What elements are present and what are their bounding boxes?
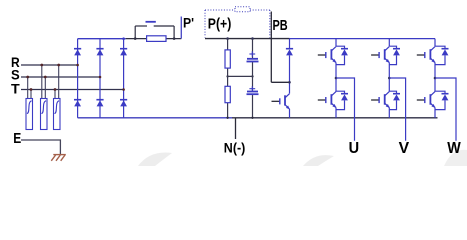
- bridge leg 3 vertical: [123, 39, 125, 118]
- varistor V3: [54, 99, 61, 130]
- wire PB to brake leg: [271, 81, 289, 83]
- node dot midpoint-C: [251, 75, 253, 77]
- watermark blob bottom-right corner: [444, 150, 467, 166]
- wire bypass loop right vertical: [173, 26, 175, 39]
- wire phase T horizontal: [21, 89, 124, 91]
- svg-text:E: E: [13, 131, 21, 147]
- bottom DC bus (dark segment): [232, 117, 438, 119]
- diode D1 (upper leg1): [74, 49, 81, 56]
- node dot S-V1: [26, 76, 29, 79]
- terminal PB vertical: [270, 12, 272, 83]
- node dot T-leg3: [122, 88, 125, 91]
- watermark blob bottom-left-center: [138, 153, 172, 166]
- transistor Q7 (brake IGBT): [272, 94, 290, 118]
- wire output tap W: [435, 78, 456, 141]
- diode D6 (lower leg3): [120, 100, 127, 107]
- node dot S-leg2: [99, 76, 102, 79]
- node dot midpoint-R: [226, 75, 228, 77]
- wire varistor V1 left lead (from S): [27, 77, 29, 99]
- relay contact K1 bar: [146, 21, 156, 23]
- wire output tap V: [389, 78, 405, 141]
- capacitor C2: [247, 86, 259, 94]
- watermark blob bottom-center-right: [303, 155, 334, 166]
- capacitor C1: [247, 51, 259, 61]
- node dot bus-R chain: [226, 37, 229, 40]
- bridge leg 1 vertical: [77, 39, 79, 118]
- varistor V1: [26, 99, 33, 130]
- wire bypass top branch left: [135, 25, 147, 27]
- svg-text:PB: PB: [273, 17, 288, 34]
- ground E symbol: [51, 155, 66, 161]
- wire output tap U: [336, 78, 355, 141]
- wire varistor V2 left lead (from R): [41, 65, 43, 99]
- varistor V2: [41, 99, 48, 130]
- terminal P' tick: [180, 17, 182, 39]
- bottom DC bus (left blue segment): [78, 117, 232, 119]
- wire varistor V2 right lead (from S): [44, 77, 46, 99]
- node dot bypass right: [173, 37, 176, 40]
- node dot bypass left: [134, 37, 137, 40]
- node dot S-V2: [44, 76, 47, 79]
- svg-text:W: W: [447, 140, 461, 157]
- svg-text:P': P': [183, 16, 194, 31]
- diode DWL (lower freewheel): [435, 91, 449, 109]
- rectifier top rail: [78, 38, 126, 40]
- terminal N(-) stub: [235, 118, 237, 139]
- svg-text:T: T: [11, 81, 20, 97]
- P bus blue segment: [290, 38, 436, 40]
- transistor QUH (upper IGBT U): [318, 39, 337, 63]
- wire midpoint vertical U: [335, 63, 337, 92]
- dashed jumper bump: [235, 7, 250, 12]
- bridge leg 2 vertical: [99, 39, 101, 118]
- node dot output tap U: [335, 77, 338, 80]
- node dot bus-C chain: [251, 37, 254, 40]
- wire midpoint vertical W: [434, 63, 436, 92]
- diode DVH (upper freewheel): [389, 46, 400, 64]
- diode D3 (upper leg3): [120, 49, 127, 56]
- node dot R-V2: [40, 64, 43, 67]
- capacitor chain wires: [252, 39, 254, 118]
- balancing resistor chain wires: [227, 39, 229, 118]
- transistor QUL (lower IGBT U): [318, 92, 337, 118]
- wire varistor V3 right lead (from R): [58, 65, 60, 99]
- node dot T-V1: [30, 88, 33, 91]
- node dot output tap V: [388, 77, 391, 80]
- node dot output tap W: [434, 77, 437, 80]
- transistor QWH (upper IGBT W): [417, 39, 436, 63]
- svg-text:V: V: [399, 140, 410, 157]
- node dot N bus R chain: [226, 117, 228, 119]
- dashed option box: [205, 10, 270, 38]
- wire bypass top branch right: [154, 25, 174, 27]
- svg-text:U: U: [349, 140, 360, 157]
- diode DUH (upper freewheel): [336, 46, 348, 64]
- node dot T-V3: [54, 88, 57, 91]
- transistor QVL (lower IGBT V): [371, 92, 390, 118]
- resistor R2 (balancing bottom): [225, 86, 230, 102]
- P bus dark segment: [205, 38, 290, 40]
- wire phase R horizontal: [21, 64, 78, 66]
- svg-text:P(+): P(+): [208, 17, 232, 33]
- wire midpoint connector: [228, 75, 253, 77]
- node dot leg3-rail: [122, 37, 125, 40]
- wire bypass loop left vertical: [134, 26, 136, 39]
- svg-text:N(-): N(-): [224, 139, 246, 155]
- wire varistor V1 right lead (from T): [30, 90, 32, 100]
- node dot R-V3: [57, 64, 60, 67]
- diode D4 (lower leg1): [74, 100, 81, 107]
- node dot R-leg1: [76, 64, 79, 67]
- wire phase S horizontal: [21, 76, 100, 78]
- resistor R1 (balancing top): [225, 50, 230, 68]
- resistor R0 (precharge): [147, 36, 166, 42]
- brake diode D7: [286, 39, 293, 94]
- diode D2 (upper leg2): [96, 49, 103, 56]
- wire varistor V3 left lead (from T): [54, 90, 56, 100]
- wire E lead: [21, 140, 60, 154]
- diode DUL (lower freewheel): [336, 91, 348, 109]
- diode DWH (upper freewheel): [435, 46, 449, 64]
- wire midpoint vertical V: [388, 63, 390, 92]
- transistor QVH (upper IGBT V): [371, 39, 390, 63]
- node dot PB-brake junction: [288, 81, 291, 84]
- precharge wire to P': [126, 38, 182, 40]
- transistor QWL (lower IGBT W): [417, 92, 436, 118]
- diode DVL (lower freewheel): [389, 91, 400, 109]
- diode D5 (lower leg2): [96, 100, 103, 107]
- node dot N bus C chain: [251, 117, 253, 119]
